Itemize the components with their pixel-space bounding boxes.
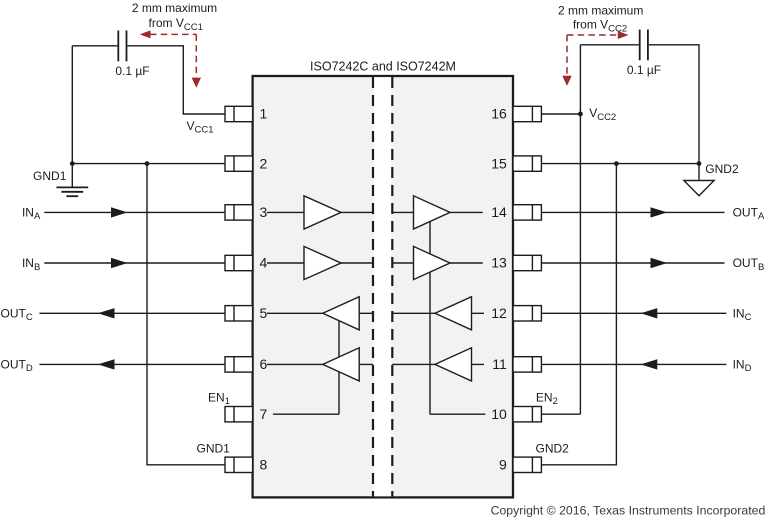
wire pin 6 to OUT_D	[39, 363, 225, 365]
ground GND2 symbol	[684, 164, 714, 196]
label IN_C	[733, 307, 752, 324]
svg-text:3: 3	[260, 204, 268, 220]
svg-text:1: 1	[260, 106, 268, 122]
wire GND1 down to pin 8	[147, 164, 225, 465]
svg-text:GND1: GND1	[33, 169, 67, 183]
svg-text:2 mm maximum: 2 mm maximum	[558, 4, 643, 18]
internal wire pin 7 (EN1)	[273, 413, 339, 415]
pin 7 number	[260, 406, 268, 422]
wire IN_C to pin 12	[541, 312, 726, 314]
svg-text:OUTC: OUTC	[1, 307, 33, 324]
pin 14 number	[491, 204, 507, 220]
arrow IN_A	[111, 207, 127, 217]
arrow IN_B	[111, 258, 127, 268]
svg-text:2: 2	[260, 155, 268, 171]
svg-text:ISO7242C and ISO7242M: ISO7242C and ISO7242M	[310, 59, 456, 73]
arrow OUT_B	[651, 258, 668, 268]
svg-text:5: 5	[260, 305, 268, 321]
svg-text:GND2: GND2	[705, 162, 739, 176]
svg-text:8: 8	[260, 457, 268, 473]
svg-text:7: 7	[260, 406, 268, 422]
annotation text left line2	[149, 16, 203, 33]
annotation arrow (2mm) left horizontal	[140, 30, 197, 38]
svg-text:EN2: EN2	[536, 391, 558, 408]
svg-text:INC: INC	[733, 307, 752, 324]
buffer channel C input (U1 right, pin 12)	[435, 297, 472, 330]
isolation barrier dashed line right	[391, 77, 393, 496]
label IN_D	[733, 358, 752, 375]
svg-text:from VCC1: from VCC1	[149, 16, 203, 33]
pin 13 stub	[513, 255, 541, 270]
internal wire barrier to pin 11	[392, 363, 484, 365]
svg-text:13: 13	[491, 255, 507, 271]
pin 2 stub	[225, 156, 253, 171]
annotation arrow (2mm) right vertical	[562, 35, 571, 86]
svg-text:Copyright © 2016, Texas Instru: Copyright © 2016, Texas Instruments Inco…	[491, 503, 766, 517]
internal wire barrier to pin 12	[392, 312, 484, 314]
pin 2 number	[260, 155, 268, 171]
pin 15 number	[491, 155, 507, 171]
wire IN_A to pin 3	[44, 211, 225, 213]
svg-text:from VCC2: from VCC2	[573, 18, 627, 35]
svg-text:GND1: GND1	[197, 442, 231, 456]
annotation arrow (2mm) left vertical	[192, 34, 201, 87]
internal wire pin 3 to barrier	[267, 211, 373, 213]
junction GND2 at C2	[697, 161, 702, 166]
svg-text:10: 10	[491, 406, 507, 422]
buffer channel C output (U1 left, pin 5)	[323, 297, 359, 330]
pin 11 stub	[513, 357, 541, 372]
capacitor C2	[640, 30, 648, 61]
label EN1	[208, 391, 230, 408]
buffer channel B input (U1 left, pin 4)	[304, 246, 341, 279]
svg-text:4: 4	[260, 255, 268, 271]
pin 3 number	[260, 204, 268, 220]
svg-text:2 mm maximum: 2 mm maximum	[132, 1, 217, 15]
svg-text:EN1: EN1	[208, 391, 230, 408]
svg-text:0.1 µF: 0.1 µF	[627, 63, 661, 77]
pin 16 number	[491, 106, 507, 122]
wire C1 right plate to pin 1	[127, 46, 225, 114]
svg-text:VCC2: VCC2	[589, 106, 616, 123]
pin 6 number	[260, 356, 268, 372]
label IN_B	[22, 256, 40, 273]
arrow OUT_D	[98, 359, 115, 369]
pin 11 number	[492, 356, 507, 372]
pin 8 number	[260, 457, 268, 473]
pin 4 stub	[225, 255, 253, 270]
label GND2 (near symbol)	[705, 162, 739, 176]
copyright notice	[491, 503, 766, 517]
junction GND2 branch to pin 9	[614, 161, 619, 166]
annotation text right line1	[558, 4, 643, 18]
label GND2 (pin 9)	[536, 442, 570, 456]
pin 14 stub	[513, 205, 541, 220]
svg-text:IND: IND	[733, 358, 752, 375]
pin 9 number	[499, 457, 507, 473]
svg-text:14: 14	[491, 204, 507, 220]
pin 6 stub	[225, 357, 253, 372]
pin 13 number	[491, 255, 507, 271]
pin 8 stub	[225, 457, 253, 472]
arrow OUT_C	[98, 308, 115, 318]
svg-text:11: 11	[492, 356, 507, 372]
pin 12 stub	[513, 306, 541, 321]
pin 1 number	[260, 106, 268, 122]
annotation text left line1	[132, 1, 217, 15]
pin 16 stub	[513, 106, 541, 121]
wire C1 left plate down to GND1 node	[71, 46, 73, 164]
wire pin 15 to GND2	[541, 163, 699, 165]
wire C2 right plate down to GND2	[649, 45, 699, 164]
label OUT_C	[1, 307, 33, 324]
internal wire pin 10 (EN2)	[430, 413, 485, 415]
wire pin 5 to OUT_C	[39, 312, 225, 314]
ground GND1 symbol	[56, 164, 88, 197]
IC body U1 (ISO7242C and ISO7242M)	[253, 76, 513, 497]
svg-text:16: 16	[491, 106, 507, 122]
internal wire barrier to pin 13	[392, 262, 483, 264]
svg-text:VCC1: VCC1	[186, 119, 213, 136]
internal wire pin 4 to barrier	[267, 262, 373, 264]
buffer channel D output (U1 left, pin 6)	[323, 348, 359, 381]
internal wire pin 5 to barrier	[267, 312, 373, 314]
svg-text:INB: INB	[22, 256, 40, 273]
junction GND1 branch to pin 8	[145, 161, 150, 166]
label OUT_D	[1, 358, 33, 375]
pin 5 number	[260, 305, 268, 321]
svg-text:OUTD: OUTD	[1, 358, 33, 375]
pin 5 stub	[225, 306, 253, 321]
svg-text:0.1 µF: 0.1 µF	[115, 64, 149, 78]
wire GND1 row to pin 2	[72, 163, 225, 165]
pin 1 stub	[225, 106, 253, 121]
wire pin 16 to VCC2 node	[541, 113, 580, 115]
svg-text:OUTA: OUTA	[733, 206, 765, 223]
isolation barrier dashed line left	[372, 77, 374, 496]
svg-text:OUTB: OUTB	[733, 256, 765, 273]
wire pin 13 to OUT_B	[541, 262, 724, 264]
svg-text:6: 6	[260, 356, 268, 372]
buffer channel A output (U1 right, pin 14)	[414, 196, 451, 229]
pin 10 number	[491, 406, 507, 422]
label VCC1	[186, 119, 213, 136]
wire pin 10 to VCC2 net	[541, 413, 580, 415]
label OUT_A	[733, 206, 765, 223]
svg-text:9: 9	[499, 457, 507, 473]
isolation barrier white strip	[374, 77, 391, 496]
svg-text:INA: INA	[22, 206, 41, 223]
IC title label	[310, 59, 456, 73]
wire pin 14 to OUT_A	[541, 211, 724, 213]
label GND1 (near symbol)	[33, 169, 67, 183]
wire GND2 down to pin 9	[541, 164, 616, 465]
label EN2	[536, 391, 558, 408]
pin 7 stub	[225, 407, 253, 422]
arrow OUT_A	[651, 207, 668, 217]
pin 15 stub	[513, 156, 541, 171]
wire GND1 net to C1 left plate	[72, 45, 117, 47]
label VCC2	[589, 106, 616, 123]
pin 10 stub	[513, 407, 541, 422]
internal wire pin 6 to barrier	[267, 363, 373, 365]
enable net EN1 vertical	[338, 321, 340, 415]
pin 4 number	[260, 255, 268, 271]
junction VCC2	[578, 112, 583, 117]
annotation arrow (2mm) right horizontal	[567, 31, 629, 39]
pin 12 number	[491, 305, 507, 321]
label OUT_B	[733, 256, 765, 273]
capacitor C2 value label 0.1 uF	[627, 63, 661, 77]
arrow IN_C	[641, 308, 658, 318]
buffer channel B output (U1 right, pin 13)	[414, 246, 451, 279]
internal wire barrier to pin 14	[392, 211, 483, 213]
label GND1 (pin 8)	[197, 442, 231, 456]
capacitor C1 value label 0.1 uF	[115, 64, 149, 78]
junction GND1 at C1	[70, 161, 75, 166]
wire IN_B to pin 4	[44, 262, 225, 264]
wire VCC2 to C2 left plate	[580, 44, 638, 46]
buffer channel A input (U1 left, pin 3)	[304, 196, 341, 229]
svg-text:12: 12	[491, 305, 507, 321]
label IN_A	[22, 206, 41, 223]
wire VCC2 vertical (C2 to EN2)	[579, 45, 581, 414]
pin 9 stub	[513, 457, 541, 472]
annotation text right line2	[573, 18, 627, 35]
buffer channel D input (U1 right, pin 11)	[435, 348, 472, 381]
pin 3 stub	[225, 205, 253, 220]
wire IN_D to pin 11	[541, 363, 726, 365]
svg-text:GND2: GND2	[536, 442, 570, 456]
arrow IN_D	[641, 359, 658, 369]
enable net EN2 vertical	[429, 221, 431, 414]
capacitor C1	[118, 31, 126, 62]
svg-text:15: 15	[491, 155, 507, 171]
